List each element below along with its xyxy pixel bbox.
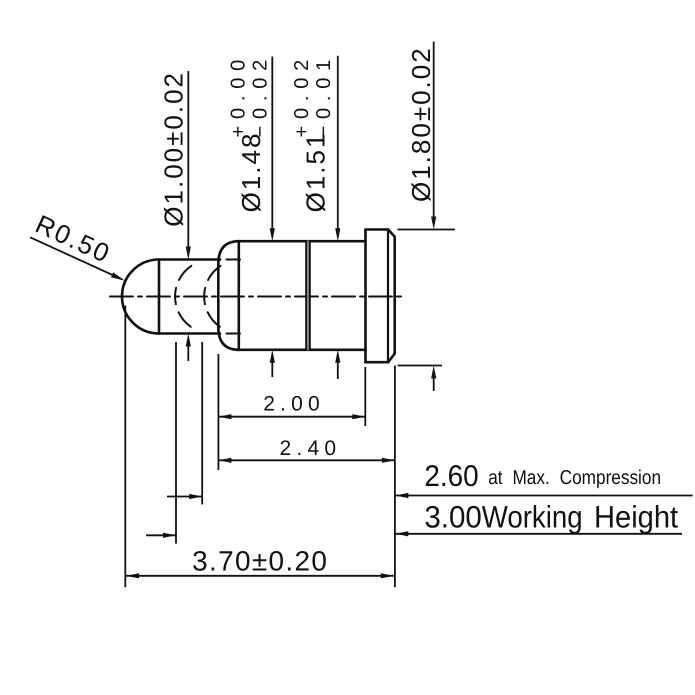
groove line right — [309, 241, 311, 350]
plunger top edge — [159, 258, 220, 261]
barrel rounded left shoulder — [218, 241, 238, 350]
svg-text:Ø1.00±0.02: Ø1.00±0.02 — [159, 71, 189, 227]
arrowhead R0.50 — [111, 272, 125, 280]
svg-text:+0.00: +0.00 — [227, 53, 249, 138]
arrowhead dia1.80 up — [431, 366, 436, 379]
centerline — [110, 296, 404, 298]
ghost dome at 2.60 max compression (dashed) — [204, 266, 220, 327]
barrel bottom edge — [237, 348, 366, 351]
svg-text:at Max. Compression: at Max. Compression — [488, 467, 661, 489]
flange outline with chamfers — [366, 230, 395, 363]
leader line dia 1.80 — [433, 42, 435, 219]
lower arrow tail dia 1.80 — [433, 378, 435, 392]
hidden plunger bottom edge inside barrel — [227, 333, 241, 335]
leader line dia 1.51 — [337, 56, 339, 231]
svg-text:+0.02: +0.02 — [291, 53, 313, 138]
dimension 3.00 working height — [146, 342, 682, 544]
svg-text:3.70±0.20: 3.70±0.20 — [192, 546, 328, 577]
barrel top edge — [237, 240, 366, 243]
svg-text:2.40: 2.40 — [280, 437, 342, 460]
leader line dia 1.00 — [187, 71, 189, 249]
flange chamfer tangent line — [387, 230, 389, 363]
arrowhead dia1.00 up — [186, 334, 191, 347]
svg-text:Ø1.51: Ø1.51 — [301, 132, 331, 213]
lower arrow tail dia 1.00 — [187, 346, 189, 362]
svg-text:Ø1.80±0.02: Ø1.80±0.02 — [406, 46, 436, 202]
svg-text:2.60: 2.60 — [424, 460, 478, 493]
svg-text:−0.02: −0.02 — [249, 53, 271, 138]
svg-text:3.00: 3.00 — [424, 500, 481, 535]
R0.50 leader line — [30, 237, 122, 279]
groove line left — [305, 241, 307, 350]
plunger bottom edge — [159, 332, 220, 335]
svg-text:Working: Working — [482, 500, 583, 535]
ghost dome at 3.00 working height (dashed) — [175, 266, 191, 327]
pin tip dome R0.50 — [122, 260, 159, 334]
dimension 2.40 — [218, 366, 395, 588]
groove gray center — [307, 241, 309, 350]
svg-text:2.00: 2.00 — [263, 393, 325, 416]
arrowhead dia1.48 up — [270, 350, 275, 363]
flange top extension line — [398, 229, 456, 231]
arrowhead dia1.00 down — [186, 247, 191, 260]
lower arrow tail dia 1.51 — [337, 362, 339, 379]
arrowhead dia1.51 up — [335, 350, 340, 363]
svg-text:−0.01: −0.01 — [313, 53, 335, 138]
flange left face — [364, 230, 367, 363]
arrowhead dia1.51 down — [335, 228, 340, 241]
leader line dia 1.48 — [271, 57, 273, 231]
dimension 2.00 — [218, 354, 365, 470]
dimension 3.70±0.20 — [125, 306, 394, 588]
arrowhead dia1.80 down — [431, 217, 436, 230]
arrowhead dia1.48 down — [270, 228, 275, 241]
svg-text:Height: Height — [594, 500, 679, 535]
dome/plunger junction line — [158, 260, 161, 334]
dimension 2.60 at max compression — [167, 342, 693, 505]
flange bottom extension line — [398, 365, 443, 367]
hidden plunger top edge inside barrel — [227, 259, 241, 261]
lower arrow tail dia 1.48 — [271, 362, 273, 377]
svg-text:Ø1.48: Ø1.48 — [236, 132, 266, 213]
barrel shoulder tangent line — [238, 241, 241, 350]
